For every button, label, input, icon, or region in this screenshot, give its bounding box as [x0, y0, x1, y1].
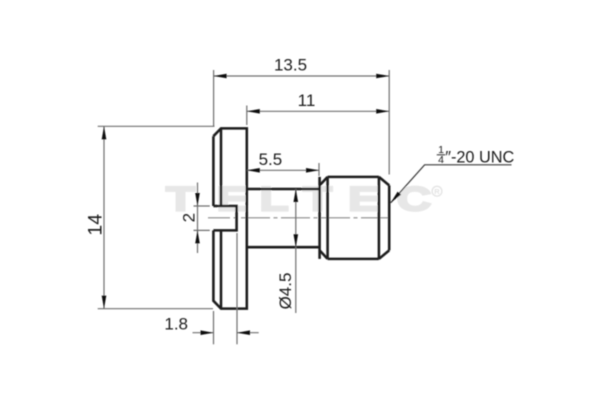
dimension 1.8: [193, 233, 259, 344]
head chamfer line: [220, 128, 223, 308]
dimension 11: [247, 106, 389, 126]
center line: [208, 217, 392, 219]
dimension 14: [98, 126, 215, 308]
thread section: [320, 177, 390, 259]
dimension 13.5: [214, 70, 390, 175]
shaft: [247, 189, 320, 247]
svg-text:R: R: [434, 187, 440, 196]
svg-text:E: E: [348, 180, 380, 218]
svg-text:13.5: 13.5: [274, 56, 307, 75]
head slot: [213, 206, 236, 230]
svg-text:″-20 UNC: ″-20 UNC: [445, 149, 514, 167]
dimension 2: [194, 183, 210, 254]
svg-text:5.5: 5.5: [259, 150, 283, 169]
dimension 5.5: [247, 163, 319, 176]
thread callout leader: [391, 165, 512, 203]
svg-text:2: 2: [180, 213, 199, 222]
dimension diameter 4.5: [295, 189, 297, 313]
svg-text:T: T: [166, 180, 195, 218]
watermark registered mark: [432, 186, 442, 196]
head outline: [213, 128, 246, 308]
thread callout text 1/4"-20 UNC: [437, 144, 515, 167]
svg-text:11: 11: [298, 91, 316, 110]
svg-text:C: C: [397, 180, 431, 218]
svg-text:14: 14: [85, 214, 107, 236]
svg-text:Ø4.5: Ø4.5: [276, 273, 295, 310]
svg-text:4: 4: [438, 154, 444, 166]
svg-text:1.8: 1.8: [164, 314, 188, 333]
svg-text:L: L: [259, 180, 288, 218]
